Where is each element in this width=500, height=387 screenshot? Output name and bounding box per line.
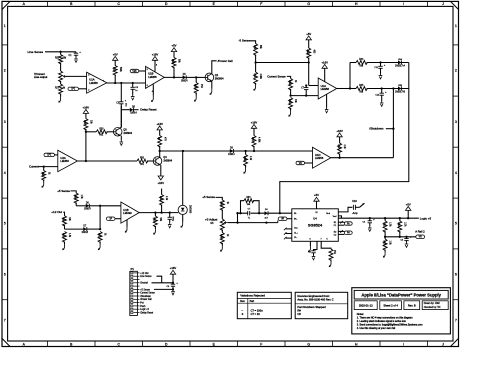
net port to U2D inverting input [296,161,305,164]
wire to U3 inverting input [290,89,292,96]
U5 ground pin [126,220,128,227]
op-amp U5 [121,202,139,223]
wire J1 Line Sense jog [157,276,162,283]
wire to U2A inverting input [39,166,58,168]
wire U2D output [331,157,394,159]
svg-text:+5V: +5V [406,202,411,206]
svg-text:+16V: +16V [83,105,90,109]
resistor R48 [221,230,223,233]
svg-text:-Amp: -Amp [352,212,358,215]
op-amp U1B [146,66,165,88]
ground [99,242,101,245]
svg-text:2N3904: 2N3904 [215,78,224,81]
wire U3 output [337,88,350,90]
wire divider tap [385,236,416,238]
svg-text:1N914: 1N914 [82,232,89,234]
table reverse engineered [295,292,348,318]
svg-text:I: I [403,2,404,6]
ground [380,74,382,76]
wire regulator rail [160,150,313,152]
ground [60,94,62,97]
wire to U3 noninverting input [309,85,319,87]
svg-text:2N3904: 2N3904 [163,160,172,163]
svg-text:+16V: +16V [156,122,163,126]
net port to U2A noninverting input [44,153,55,156]
capacitor C10 and -Amp arrow [338,207,352,212]
svg-text:Lisa output: Lisa output [34,75,48,79]
wire logic +5 rail [338,217,419,219]
resistor R45 [350,88,356,90]
svg-text:7: 7 [4,319,6,323]
svg-text:VR: VR [419,237,422,239]
svg-text:+12 Out: +12 Out [140,272,148,275]
op-amp U3A [318,78,337,99]
title block [352,288,451,334]
svg-text:7: 7 [455,319,457,323]
Q3 emitter [120,136,122,140]
resistor R32 [308,40,310,48]
svg-text:C7 = 100u: C7 = 100u [251,308,264,312]
ground [75,57,77,59]
SCR cathode [182,215,184,222]
svg-text:3: 3 [88,75,89,77]
ground [132,95,134,97]
svg-text:Reverse Engineered from:: Reverse Engineered from: [297,294,330,298]
svg-text:+5 Sense: +5 Sense [140,289,150,291]
wire [216,197,223,200]
svg-text:4: 4 [4,171,6,175]
svg-text:Push: Push [140,306,146,308]
resistor R31 [255,63,257,73]
IC ground pin [309,241,311,246]
svg-text:Delay Reset: Delay Reset [140,108,156,112]
diode D7 [83,227,87,231]
resistor R9 [159,130,161,136]
diode D9 [230,149,234,153]
svg-text:+5 Sense: +5 Sense [57,189,70,193]
svg-text:5: 5 [147,69,148,71]
wire [85,129,87,161]
svg-text:1: 1 [4,24,6,28]
svg-text:Drawn by: JDM: Drawn by: JDM [424,302,440,305]
resistor R24 [85,113,87,118]
wire U5 output [139,212,178,214]
svg-text:J: J [442,2,444,6]
wire [76,205,86,207]
resistor R38 [74,193,78,203]
svg-text:VR1: VR1 [132,71,137,73]
transistor Q4 [153,157,162,166]
ground [64,242,66,245]
wire [63,212,64,216]
IC outputs to net ports [338,221,344,223]
resistor R25 [60,52,62,55]
capacitor C7 [305,86,307,88]
svg-text:C7 = 10: C7 = 10 [251,312,261,316]
frame grid reference ticks and labels [47,1,49,6]
resistor R26 [173,52,175,58]
svg-text:Part Numbers Stepped: Part Numbers Stepped [297,305,326,309]
svg-text:1N914: 1N914 [181,80,188,82]
resistor R43 pull-up [161,189,163,195]
power +16V [83,110,88,114]
svg-text:1N914: 1N914 [84,209,91,211]
svg-text:VR: VR [281,219,284,221]
op-amp U2D [313,147,331,168]
svg-text:R#: R# [297,309,301,313]
svg-text:+5V: +5V [113,52,118,56]
svg-text:LM358: LM358 [89,81,98,85]
svg-text:LRB: LRB [398,85,403,87]
power +16V above R9 [157,126,162,130]
power +5V [113,56,118,60]
svg-text:LM358: LM358 [60,159,69,163]
capacitor C16 [169,213,171,218]
capacitor C20 [406,237,408,239]
resistor R30 [86,131,96,133]
wire [349,63,351,89]
capacitor C18 on CT [314,241,318,251]
resistor R40 [63,232,67,243]
svg-text:2002-01-13: 2002-01-13 [359,304,373,308]
capacitor C11 [380,63,382,67]
svg-text:Vref: Vref [333,215,337,218]
svg-text:Logic +5: Logic +5 [140,309,149,311]
svg-text:+5V: +5V [172,44,177,48]
svg-text:15: 15 [315,212,317,214]
svg-text:8: 8 [309,239,310,241]
wire [99,206,101,229]
compensation loop R64 [241,201,245,214]
wire U1B output [164,76,182,78]
capacitor C17 series [248,211,251,216]
ground [43,180,45,182]
svg-text:/Delay Reset: /Delay Reset [140,311,153,314]
svg-text:Current Sense: Current Sense [267,74,286,78]
wire Q4 collector [159,151,161,157]
wire [308,58,310,86]
svg-text:CL-: CL- [294,237,298,239]
svg-text:VR: VR [299,163,302,165]
svg-text:/Shutdown: /Shutdown [140,295,151,298]
wire wiper [228,222,238,224]
power +16V above R37 [337,133,342,137]
svg-text:+16V: +16V [251,120,258,124]
wire to U5 noninverting input [100,205,121,207]
svg-text:A Rail 2: A Rail 2 [415,230,425,234]
resistor R41 [98,232,102,243]
resistor R21 [253,128,255,135]
wire U1A output [107,82,146,84]
svg-text:IN-: IN- [294,213,297,215]
resistor R23 [254,44,258,56]
svg-text:2: 2 [88,90,89,92]
svg-text:4: 4 [455,171,457,175]
potentiometer R26 (Trimmed Lisa output) [59,71,63,82]
wire bridge [237,213,239,222]
svg-text:P1: P1 [131,267,135,271]
U3 negative supply [326,95,328,108]
ground [195,93,197,96]
resistor R39 [63,216,67,226]
svg-text:1: 1 [103,81,104,83]
resistor R49 on RT [321,241,331,249]
ground [154,226,156,229]
diode D1 1N5817 [398,61,402,65]
svg-text:SG3524: SG3524 [308,222,323,227]
power +16V for U1B [152,56,157,60]
resistor R44 [350,62,356,64]
svg-text:3: 3 [4,120,6,124]
wire line-sense [45,51,76,53]
ground [290,108,292,111]
svg-text:G: G [307,343,310,347]
ground [245,165,247,168]
net port to U1B input [130,69,139,72]
transistor Q3 [113,128,122,137]
svg-text:F: F [260,2,262,6]
capacitor C1 [75,52,77,53]
op-amp U2A [58,150,78,172]
svg-text:+16V: +16V [336,129,343,133]
svg-text:+5 Sense: +5 Sense [202,195,215,199]
wire [65,228,84,230]
svg-text:3: 3 [455,120,457,124]
svg-text:/Power Fail: /Power Fail [140,298,152,301]
svg-text:+16V: +16V [158,181,165,185]
diode D8 [121,109,130,111]
table variations rejected [237,292,291,318]
U1B ground pin [152,84,154,96]
ground [169,223,171,225]
svg-text:+5 Adjust: +5 Adjust [205,218,218,222]
Q4 emitter to +16V [160,165,162,176]
resistor R37 pull-up [339,137,341,143]
capacitor C15 [171,283,175,285]
Q1 emitter to rail [211,81,213,88]
wire [255,55,257,63]
resistor R33 [287,76,291,78]
svg-text:/Shutdown: /Shutdown [369,127,383,131]
svg-text:8: 8 [156,65,157,67]
resistor R46 [220,200,224,210]
resistor R27 [60,81,62,84]
wire upper error line [238,212,292,214]
svg-text:Line Sense: Line Sense [28,50,44,54]
svg-text:2N5060: 2N5060 [188,205,190,214]
resistor R29 [195,77,197,82]
ground [221,243,223,246]
wire J1 ground row [152,282,174,284]
svg-text:Rev. B: Rev. B [408,304,416,308]
power +5V on rail [406,207,411,211]
svg-text:LM358: LM358 [148,75,157,79]
wire Q1 collector to /Power Fail [212,61,217,74]
ground [381,101,383,103]
diode D6 [86,204,90,208]
svg-text:4.99k: 4.99k [258,137,260,143]
svg-text:/Power Fail: /Power Fail [218,59,233,63]
svg-text:6: 6 [4,273,6,277]
wire U2A output [77,160,137,162]
svg-text:C#: C# [297,312,301,316]
wire to current-limit amp [256,62,309,64]
wire [250,41,256,44]
svg-text:Pot: Pot [140,301,144,304]
IC no-connect pins [286,228,292,230]
ground [384,250,386,252]
svg-text:LRA: LRA [398,58,403,61]
svg-text:+5V: +5V [314,193,319,197]
resistor R52 [384,237,386,239]
wire rail A [367,62,409,64]
diode D5 [183,75,187,79]
svg-text:1N914: 1N914 [130,112,137,114]
svg-text:I: I [403,343,404,347]
svg-text:5: 5 [4,222,6,226]
capacitor C9 delay [120,83,122,102]
svg-text:Sheet 2 of 4: Sheet 2 of 4 [383,304,398,308]
wire rail A down [280,63,409,214]
resistor R53 [399,218,401,221]
svg-text:Current Sense: Current Sense [140,292,155,295]
svg-text:F: F [260,343,262,347]
capacitor C12 [381,89,383,94]
svg-text:--: -- [241,309,243,312]
svg-text:C10: C10 [352,200,357,203]
resistor R22 pull-up [114,60,116,65]
net port to U1A inverting input [68,87,79,90]
svg-text:6: 6 [326,239,327,241]
svg-text:1: 1 [455,24,457,28]
transistor Q1 [205,73,214,82]
svg-text:LM358: LM358 [315,156,324,160]
resistor R34 [289,98,293,109]
potentiometer R47 [220,219,224,230]
wire pot wiper to U1A [66,75,87,77]
ground [172,289,174,291]
ground [255,83,257,85]
svg-text:2N3904: 2N3904 [123,132,132,135]
svg-text:7: 7 [320,239,321,241]
svg-text:Variations Rejected: Variations Rejected [240,294,265,298]
svg-text:LM358: LM358 [321,87,330,91]
resistor R35 [43,167,45,171]
wire Q3 collector [120,106,121,128]
capacitor C19 [369,218,371,221]
power +5V [306,36,311,40]
op-amp U1A [87,72,107,93]
power +5V [171,48,176,52]
svg-text:2: 2 [455,69,457,73]
IC U4 SG3524 [292,209,339,242]
diode D4 series [264,211,268,215]
svg-text:-5 Sense: -5 Sense [239,39,251,43]
svg-text:+5V: +5V [306,32,311,36]
SCR Q5 crowbar [182,151,184,205]
svg-text:Checked by: TN: Checked by: TN [424,307,441,309]
resistor R51 [384,218,386,221]
svg-text:Ground: Ground [140,282,148,285]
power +16V above R21 [251,124,256,128]
power +5V to IC Vin [314,197,319,201]
wire Vref to logic rail [338,216,341,218]
svg-text:LM339: LM339 [123,211,132,215]
wire to IC noninverting [277,221,279,223]
power +16V for U3 [322,64,327,68]
resistor R50 [137,159,148,163]
wire rail B down [392,89,394,158]
ground [369,226,371,228]
svg-text:4. Use this drawing at your ow: 4. Use this drawing at your own risk [357,327,396,330]
wire [71,191,77,193]
svg-text:1N5817-A: 1N5817-A [395,64,405,67]
svg-text:J: J [442,343,444,347]
svg-text:+16V: +16V [321,60,328,64]
svg-text:4.99k: 4.99k [259,74,261,80]
svg-text:Assy. No. 699-0106-400 Rev. C: Assy. No. 699-0106-400 Rev. C [297,298,333,302]
svg-text:5: 5 [455,222,457,226]
net port to U5 inverting input [106,217,115,220]
wire lower adjust line [238,222,278,224]
capacitor C8 [132,83,134,87]
svg-text:1N5817-B: 1N5817-B [395,91,405,93]
svg-text:Current: Current [29,164,39,168]
svg-text:1N914: 1N914 [228,154,235,156]
svg-text:+12 Out: +12 Out [51,210,62,214]
svg-text:Part: Part [250,300,255,303]
svg-text:+16V: +16V [152,52,159,56]
svg-text:U4: U4 [313,216,317,220]
resistor R42 [154,213,156,216]
svg-text:2: 2 [4,69,6,73]
svg-text:+16V: +16V [170,266,177,270]
svg-text:6: 6 [147,85,148,87]
diode D2 1N5817 [398,87,402,91]
svg-text:Line Sense: Line Sense [140,276,152,278]
wire rail B [367,88,409,90]
svg-text:Apple II/Lisa “DataPower” Powe: Apple II/Lisa “DataPower” Power Supply [361,293,441,298]
power +16V at J1 [170,270,175,274]
wire J1 +5 sense row [154,288,173,290]
wire [196,76,205,78]
ground [406,242,408,244]
svg-text:Logic +5: Logic +5 [420,216,432,220]
svg-text:Rev: Rev [240,300,245,303]
wire [60,63,62,71]
svg-text:G: G [307,2,310,6]
resistor R36 [245,151,247,155]
svg-text:6: 6 [455,273,457,277]
svg-text:Osc: Osc [294,228,298,230]
